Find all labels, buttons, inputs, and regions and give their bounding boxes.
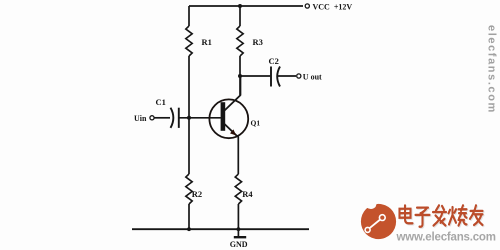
junction top rail / R3 <box>238 4 242 8</box>
wire Uin to C1 <box>154 117 170 119</box>
terminal VCC <box>305 4 309 8</box>
wire R1 bottom to base junction to R2 <box>188 56 190 174</box>
wire collector up to R3 <box>240 76 242 95</box>
wire R1 top <box>188 6 190 26</box>
watermark logo circle <box>361 196 396 240</box>
terminal U out <box>297 74 301 78</box>
wire C1 to base <box>179 117 221 119</box>
svg-text:GND: GND <box>230 240 248 249</box>
svg-text:R1: R1 <box>202 37 212 47</box>
resistor R4 <box>235 174 241 204</box>
capacitor C2 <box>270 67 272 87</box>
svg-text:R4: R4 <box>242 189 253 199</box>
resistor R3 <box>237 26 243 56</box>
svg-text:www.elecfans.com: www.elecfans.com <box>396 232 496 244</box>
wire C2 to U out <box>277 75 296 77</box>
svg-text:VCC +12V: VCC +12V <box>313 2 353 11</box>
wire R4 bottom <box>237 204 239 229</box>
junction R2 / ground <box>187 227 191 231</box>
svg-text:Q1: Q1 <box>251 118 261 127</box>
svg-text:R2: R2 <box>192 189 202 199</box>
wire emitter down <box>237 136 239 174</box>
svg-text:elecfans.com: elecfans.com <box>486 25 498 114</box>
resistor R2 <box>186 174 192 204</box>
junction base / R1R2 divider <box>187 116 191 120</box>
wire ground rail <box>132 228 309 230</box>
wire top rail VCC <box>189 5 303 7</box>
wire C2 branch <box>241 75 270 77</box>
svg-text:R3: R3 <box>253 37 263 47</box>
capacitor C1 <box>171 108 174 128</box>
wire R3 top <box>239 6 241 26</box>
junction R4 / ground <box>237 227 241 231</box>
svg-text:Uin: Uin <box>134 114 147 123</box>
transistor Q1 <box>209 95 260 138</box>
wire R2 bottom <box>188 204 190 229</box>
resistor R1 <box>186 26 192 56</box>
junction C2 tap <box>238 74 242 78</box>
wire R3 bottom to collector <box>239 56 241 95</box>
svg-text:C2: C2 <box>269 56 279 66</box>
svg-text:C1: C1 <box>156 97 166 107</box>
svg-text:U out: U out <box>303 72 322 81</box>
ground <box>230 229 248 249</box>
